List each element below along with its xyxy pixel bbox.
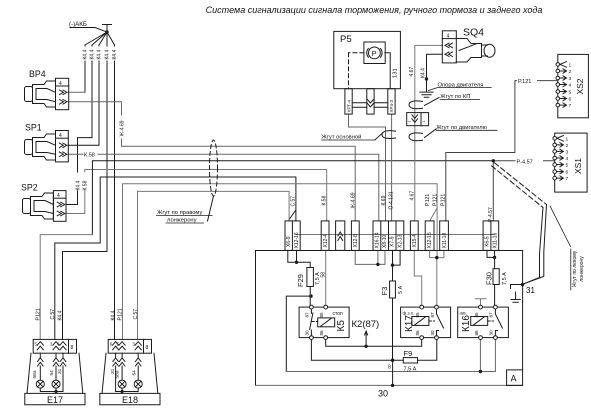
svg-text:58а: 58а (114, 370, 120, 378)
svg-text:4.67: 4.67 (409, 191, 415, 201)
svg-text:58а: 58а (32, 370, 38, 378)
svg-text:1: 1 (408, 120, 412, 122)
svg-text:1: 1 (569, 62, 572, 68)
svg-text:P: P (372, 49, 377, 58)
svg-text:85: 85 (474, 312, 479, 318)
svg-text:30: 30 (378, 389, 388, 399)
svg-text:С.57: С.57 (133, 309, 139, 320)
svg-text:(-)АКБ: (-)АКБ (69, 21, 87, 28)
svg-text:30: 30 (430, 330, 435, 336)
svg-text:3: 3 (569, 76, 572, 82)
svg-text:3: 3 (566, 149, 569, 155)
svg-text:лонжерону: лонжерону (579, 256, 585, 282)
svg-text:4: 4 (57, 193, 60, 199)
svg-text:К4.4: К4.4 (111, 310, 117, 320)
svg-text:К4.4: К4.4 (58, 310, 64, 320)
svg-text:F9: F9 (404, 349, 413, 358)
svg-text:С.57: С.57 (50, 309, 56, 320)
svg-text:8: 8 (388, 365, 391, 371)
svg-text:F3: F3 (380, 287, 389, 296)
svg-text:ф.з.х.: ф.з.х. (403, 311, 415, 316)
svg-text:6: 6 (566, 170, 569, 176)
svg-text:С.57: С.57 (291, 196, 297, 207)
svg-text:131: 131 (393, 68, 399, 78)
svg-text:6: 6 (569, 97, 572, 103)
svg-text:5 А: 5 А (398, 285, 404, 294)
svg-text:4.67: 4.67 (409, 67, 415, 77)
svg-text:1: 1 (422, 120, 426, 122)
svg-text:Р.121: Р.121 (432, 194, 438, 206)
svg-text:К4.4: К4.4 (90, 49, 96, 59)
svg-text:SP2: SP2 (21, 183, 38, 193)
svg-text:Р.121: Р.121 (35, 308, 41, 320)
svg-text:7,5 А: 7,5 А (502, 272, 508, 285)
svg-text:4: 4 (566, 156, 569, 162)
svg-text:Х12-16: Х12-16 (294, 232, 300, 248)
svg-text:4: 4 (59, 133, 62, 139)
svg-text:Ж-4.69: Ж-4.69 (119, 120, 125, 136)
svg-text:К.69: К.69 (381, 195, 387, 205)
svg-text:Х11-18: Х11-18 (442, 233, 448, 249)
svg-text:Р-4.57: Р-4.57 (488, 207, 494, 222)
svg-text:стоп: стоп (333, 311, 344, 317)
svg-text:85: 85 (319, 312, 324, 318)
svg-text:87: 87 (305, 312, 310, 318)
svg-text:54: 54 (131, 370, 137, 376)
svg-text:SP1: SP1 (25, 123, 42, 133)
svg-text:85: 85 (415, 312, 420, 318)
svg-text:58: 58 (320, 272, 326, 278)
svg-text:ХРТ-4: ХРТ-4 (346, 99, 351, 112)
svg-text:5: 5 (569, 90, 572, 96)
svg-text:Х12-8: Х12-8 (353, 234, 359, 248)
svg-text:К4.4: К4.4 (105, 49, 111, 59)
svg-text:4: 4 (59, 81, 62, 87)
svg-text:7: 7 (566, 176, 569, 182)
svg-text:F29: F29 (296, 274, 305, 287)
svg-text:7: 7 (569, 103, 572, 109)
svg-text:Р.121: Р.121 (425, 194, 431, 206)
svg-text:О-4.131: О-4.131 (388, 191, 394, 209)
svg-text:8: 8 (71, 345, 74, 351)
svg-text:2: 2 (566, 143, 569, 149)
svg-text:шв.: шв. (460, 311, 467, 316)
svg-text:Х16-14: Х16-14 (374, 232, 380, 248)
svg-text:Р.121: Р.121 (518, 79, 531, 85)
svg-text:К.58: К.58 (322, 195, 328, 205)
svg-text:ХР4-3: ХР4-3 (389, 99, 394, 112)
svg-text:87: 87 (489, 312, 494, 318)
svg-text:Х7-9: Х7-9 (390, 236, 396, 247)
svg-text:К17: К17 (404, 315, 415, 332)
svg-text:87: 87 (430, 312, 435, 318)
svg-text:86: 86 (474, 330, 479, 336)
svg-text:30: 30 (305, 330, 310, 336)
svg-text:Е17: Е17 (47, 395, 63, 405)
svg-text:BP4: BP4 (29, 69, 46, 79)
svg-text:4: 4 (447, 34, 450, 40)
svg-text:86: 86 (415, 330, 420, 336)
svg-text:2: 2 (569, 69, 572, 75)
svg-text:4: 4 (569, 83, 572, 89)
svg-text:XS2: XS2 (575, 78, 585, 94)
svg-text:31: 31 (526, 286, 535, 295)
svg-text:XS1: XS1 (573, 158, 583, 174)
svg-text:Х6-5: Х6-5 (485, 236, 491, 247)
svg-text:Х12-4: Х12-4 (323, 234, 329, 248)
svg-text:К4.4: К4.4 (75, 180, 81, 190)
svg-text:Ж-4.69: Ж-4.69 (350, 192, 356, 208)
svg-text:31: 31 (57, 368, 63, 374)
svg-text:К5: К5 (336, 320, 347, 332)
svg-text:Х11-16: Х11-16 (492, 233, 498, 249)
svg-text:К4.4: К4.4 (97, 49, 103, 59)
svg-text:Х15-4: Х15-4 (412, 234, 418, 248)
svg-text:Е18: Е18 (122, 395, 138, 405)
svg-text:30: 30 (489, 330, 494, 336)
svg-text:А: А (511, 374, 517, 384)
svg-text:1: 1 (566, 136, 569, 142)
svg-text:Система сигнализации сигнала т: Система сигнализации сигнала торможения,… (206, 5, 543, 15)
svg-text:8: 8 (146, 345, 149, 351)
svg-text:86: 86 (319, 330, 324, 336)
svg-text:К4.4: К4.4 (112, 49, 118, 59)
svg-text:Жгут по левому: Жгут по левому (572, 250, 578, 287)
svg-text:Х12-15: Х12-15 (427, 232, 433, 248)
svg-text:Х8-10: Х8-10 (382, 234, 388, 248)
svg-text:Р.121: Р.121 (441, 194, 447, 206)
svg-text:К.58: К.58 (83, 180, 89, 190)
svg-text:К2(87): К2(87) (352, 319, 380, 330)
svg-text:7,5 А: 7,5 А (404, 366, 417, 372)
svg-text:К4.4: К4.4 (83, 49, 89, 59)
svg-text:F30: F30 (484, 272, 493, 285)
svg-text:5: 5 (566, 163, 569, 169)
svg-text:P5: P5 (340, 34, 352, 45)
svg-text:SQ4: SQ4 (463, 27, 484, 39)
svg-text:54: 54 (49, 370, 55, 376)
svg-text:Р.121: Р.121 (118, 308, 124, 320)
svg-text:Х6-9: Х6-9 (286, 236, 292, 247)
svg-text:Х2-13: Х2-13 (397, 234, 403, 248)
svg-text:Р-4.57: Р-4.57 (517, 159, 533, 165)
svg-text:К.58: К.58 (84, 152, 95, 158)
svg-text:К16: К16 (461, 315, 472, 332)
svg-text:К4.4: К4.4 (421, 68, 427, 78)
